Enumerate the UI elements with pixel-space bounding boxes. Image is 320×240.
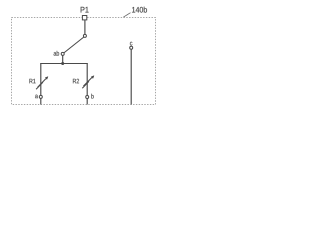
terminal P1 square	[82, 16, 86, 20]
label c	[130, 42, 132, 46]
variable resistor R2 arrow	[82, 76, 94, 89]
terminal a circle	[39, 95, 42, 98]
label P1	[81, 7, 89, 13]
label R2	[73, 79, 79, 84]
switch contact circle ab	[61, 52, 64, 55]
wire terminal a to boundary	[40, 98, 42, 104]
enclosure 140b dashed boundary	[12, 18, 156, 105]
leader line for 140b	[123, 13, 130, 18]
wire ab contact to junction	[62, 56, 64, 64]
variable resistor R1 arrow	[36, 77, 48, 90]
node c circle	[130, 46, 133, 49]
label ab	[54, 51, 59, 56]
wire left branch to terminal a	[40, 64, 42, 96]
label 140b	[132, 7, 147, 13]
junction dot	[61, 62, 64, 65]
label a	[35, 95, 38, 99]
switch arm blade	[64, 37, 84, 53]
label R1	[29, 79, 35, 83]
bus wire horizontal	[40, 63, 88, 65]
switch fixed contact circle	[83, 34, 86, 37]
wire node c to boundary	[130, 49, 132, 104]
label b	[91, 94, 93, 99]
wire right branch to terminal b	[86, 64, 88, 96]
terminal b circle	[86, 96, 89, 99]
wire P1 to switch contact	[84, 20, 86, 35]
wire terminal b to boundary	[86, 99, 88, 105]
